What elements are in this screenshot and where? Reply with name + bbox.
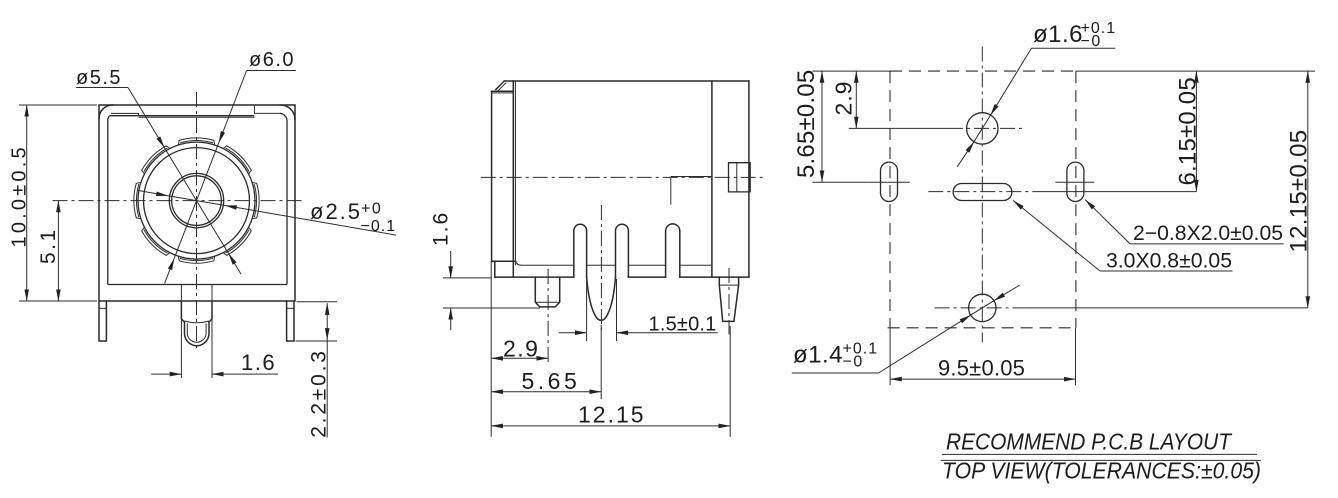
title underline 2 <box>941 459 1261 461</box>
dim 2.2 top extension <box>297 301 338 303</box>
center slot 3.0x0.8 <box>953 184 1012 201</box>
dim 9.5 ext left <box>889 328 891 385</box>
pcb outline top edge dashed <box>890 70 1076 72</box>
front flange left edge <box>491 91 493 261</box>
dim line 2.2+-0.3 <box>326 303 328 340</box>
hole d1.6 centerline dashed part <box>948 127 1022 129</box>
dim line 1.5 right part <box>617 332 718 334</box>
label d6.0 leader arrow lower tail <box>165 258 175 283</box>
front contact pin <box>535 277 559 307</box>
dim line 1.6 right part <box>212 373 278 375</box>
svg-text:2−0.8X2.0±0.05: 2−0.8X2.0±0.05 <box>1133 222 1283 245</box>
inner housing top second line <box>139 116 255 118</box>
slot C <box>666 224 680 277</box>
right mounting leg <box>287 301 294 341</box>
label d1.4 leader through hole <box>971 301 994 315</box>
body right wall <box>711 81 713 277</box>
svg-text:ø1.6: ø1.6 <box>1033 21 1083 48</box>
dim 2.2 bottom extension <box>296 340 338 342</box>
svg-text:ø1.4: ø1.4 <box>793 342 843 369</box>
svg-text:2.9: 2.9 <box>831 81 857 116</box>
label 3.0x0.8 leader <box>1013 201 1100 272</box>
label d6.0 leader through center <box>174 143 219 259</box>
dim 1.6 arrow lower <box>450 308 452 330</box>
front flange bottom <box>492 260 515 262</box>
left leg tick <box>99 307 106 309</box>
dim line 2.2 tail <box>326 340 328 438</box>
side lug tab mid line <box>736 163 738 192</box>
side lug tab rectangle <box>729 163 751 192</box>
svg-text:TOP VIEW(TOLERANCES:±0.05): TOP VIEW(TOLERANCES:±0.05) <box>942 458 1261 484</box>
lock washer inner circle d5.5 <box>144 148 250 254</box>
left extension line for bottom dims <box>490 262 492 437</box>
front flange bevel inner <box>498 83 506 91</box>
back plate right edge <box>748 81 750 277</box>
cavity bottom inner line <box>515 260 712 266</box>
dim line 12.15 <box>491 425 730 427</box>
label d2.5 leader tail to label <box>225 206 396 236</box>
title underline 1 <box>942 453 1257 455</box>
svg-text:ø2.5: ø2.5 <box>310 199 362 224</box>
dim line 10.0+-0.5 <box>26 105 28 301</box>
left slot extension to dim <box>812 181 867 183</box>
front pin fold line <box>535 301 559 303</box>
dim line 5.1 <box>57 201 59 301</box>
dim 1.6 extension right <box>211 285 213 379</box>
label d1.4 leader arrow lower <box>879 315 971 373</box>
dim line 2.9 pcb <box>855 71 857 128</box>
pcb outline top edge extension left <box>812 70 890 72</box>
hole d1.4 <box>969 294 996 321</box>
center slot extension to 6.15 dim <box>1038 191 1196 193</box>
label d6.0 underline <box>247 70 296 72</box>
svg-text:6.15±0.05: 6.15±0.05 <box>1175 77 1202 185</box>
inner housing right wall <box>280 113 287 284</box>
center slot centerline dashed <box>928 191 1038 193</box>
body bottom edge segments <box>495 276 749 278</box>
svg-text:2.2±0.3: 2.2±0.3 <box>307 348 330 438</box>
svg-text:9.5±0.05: 9.5±0.05 <box>938 356 1025 381</box>
right slot 0.8x2.0 <box>1067 162 1084 201</box>
svg-text:−0.1: −0.1 <box>361 218 397 235</box>
dim 1.5 ext left <box>586 279 588 341</box>
dim line 1.5 left part <box>559 332 587 334</box>
label d1.4 underline <box>792 372 879 374</box>
dim line 5.65+-0.05 <box>821 71 823 182</box>
svg-text:1.5±0.1: 1.5±0.1 <box>649 314 717 336</box>
svg-text:+0: +0 <box>361 201 382 218</box>
label d5.5 leader through center <box>164 148 228 254</box>
front flange bevel <box>496 81 504 89</box>
label 3.0x0.8 underline <box>1100 270 1233 272</box>
shell bend arc top-right <box>281 105 296 120</box>
svg-text:5.65: 5.65 <box>522 368 581 394</box>
pcb outline left edge dashed <box>889 71 891 328</box>
svg-text:10.0±0.5: 10.0±0.5 <box>9 144 31 247</box>
PCB VIEW GROUP <box>792 20 1315 484</box>
svg-text:RECOMMEND P.C.B LAYOUT: RECOMMEND P.C.B LAYOUT <box>946 429 1233 455</box>
label d1.4 leader arrow upper tail <box>994 285 1020 301</box>
label d1.6 leader arrow upper <box>991 48 1032 115</box>
FRONT VIEW GROUP <box>9 49 397 438</box>
body top edge side view <box>504 80 749 82</box>
label d2.5 leader through center <box>168 196 225 206</box>
dim 1.6 ext lower <box>443 307 540 309</box>
shell body outline front view <box>99 105 295 301</box>
center pin centerline <box>600 205 602 330</box>
dim line 12.15+-0.05 <box>1307 71 1309 308</box>
svg-text:1.6: 1.6 <box>430 211 453 246</box>
lock washer outer circle d6.0 <box>138 142 255 259</box>
pcb vertical centerline <box>981 47 983 343</box>
horizontal centerline front <box>53 200 304 202</box>
svg-text:5.1: 5.1 <box>37 227 60 264</box>
svg-text:2.9: 2.9 <box>503 336 539 362</box>
left slot 0.8x2.0 <box>881 162 898 201</box>
label 2-0.8x2.0 leader <box>1085 200 1130 244</box>
dim 10.0 bottom extension <box>19 300 97 302</box>
rear terminal pin <box>719 277 738 321</box>
label d5.5 leader arrow lower tail <box>229 254 241 275</box>
pcb outline top edge extension right <box>1076 70 1315 72</box>
center pin hole d2.5 inner <box>172 176 222 226</box>
pcb outline bottom edge dashed <box>888 327 1076 329</box>
label d2.5 leader arrow left <box>137 190 168 196</box>
washer tabs 8x <box>134 138 259 263</box>
hole d1.6 <box>967 113 998 144</box>
center DC pin side profile <box>587 277 616 320</box>
front pin centerline <box>547 269 549 363</box>
inner housing bottom line <box>108 284 287 286</box>
SIDE VIEW GROUP <box>430 81 763 437</box>
label d1.6 leader arrow lower tail <box>957 142 974 167</box>
dim 1.6 arrow upper <box>450 251 452 278</box>
body left wall <box>512 81 514 277</box>
slot B <box>616 224 629 277</box>
dim 1.5 ext right <box>616 279 618 341</box>
hole d1.6 horizontal centerline <box>849 127 948 129</box>
hole d1.4 horizontal centerline <box>935 307 1025 309</box>
center lug profile <box>181 301 212 346</box>
dim line 1.6 left part <box>151 373 181 375</box>
svg-text:−0: −0 <box>1081 33 1102 50</box>
right slot tick <box>1055 181 1094 183</box>
inner housing top raised lip left <box>111 113 139 115</box>
left slot tick <box>868 181 910 183</box>
svg-text:3.0X0.8±0.05: 3.0X0.8±0.05 <box>1106 250 1232 273</box>
vertical centerline front <box>196 92 198 350</box>
shell bend arc top-left <box>99 105 113 119</box>
dim 10.0 top extension <box>19 104 97 106</box>
axis centerline side view <box>481 176 763 178</box>
label 2-0.8x2.0 underline <box>1130 243 1284 245</box>
dim line 2.9 <box>491 357 548 359</box>
center lug inner tip arc <box>187 323 206 342</box>
center lug fold line <box>185 321 210 323</box>
dim 1.6 extension left <box>180 285 182 379</box>
center pin hole d2.5 outer <box>169 173 223 227</box>
center pin extension line <box>600 325 602 399</box>
pcb outline right edge dashed <box>1075 71 1077 328</box>
label d1.6 underline <box>1031 47 1115 49</box>
slot A <box>574 224 587 277</box>
inner housing left wall <box>108 116 110 285</box>
svg-text:5.65±0.05: 5.65±0.05 <box>793 70 820 178</box>
inner housing top line <box>110 115 255 117</box>
flange bottom step box <box>494 261 496 277</box>
hole d1.4 extension to 12.15 dim <box>1025 307 1308 309</box>
dim line 9.5+-0.05 <box>890 378 1075 380</box>
svg-text:−0: −0 <box>843 354 864 371</box>
dim line 5.65 <box>491 391 601 393</box>
front flange top inner line <box>492 92 514 94</box>
dim 9.5 ext right <box>1075 328 1077 385</box>
front flange top double line <box>492 90 514 92</box>
svg-text:1.6: 1.6 <box>241 350 276 375</box>
svg-text:12.15±0.05: 12.15±0.05 <box>1286 130 1313 253</box>
svg-text:ø5.5: ø5.5 <box>76 67 122 89</box>
label d5.5 leader arrow upper <box>128 88 164 148</box>
svg-text:ø6.0: ø6.0 <box>249 49 295 71</box>
body left wall inner line <box>514 81 516 265</box>
label d1.6 leader through hole <box>974 115 991 142</box>
dim line 6.15+-0.05 <box>1195 71 1197 192</box>
internal contact step line <box>671 177 712 205</box>
label d5.5 underline <box>76 87 128 89</box>
inner housing top-right tab notch <box>254 105 280 113</box>
rear pin shoulder line <box>719 284 738 286</box>
dim 1.6 ext upper <box>443 277 492 279</box>
rear pin extension line <box>729 326 731 437</box>
svg-text:12.15: 12.15 <box>578 401 646 427</box>
label d6.0 leader arrow upper <box>219 71 247 143</box>
left mounting leg <box>99 301 106 341</box>
right leg tick <box>287 307 294 309</box>
rear pin centerline <box>728 268 730 334</box>
